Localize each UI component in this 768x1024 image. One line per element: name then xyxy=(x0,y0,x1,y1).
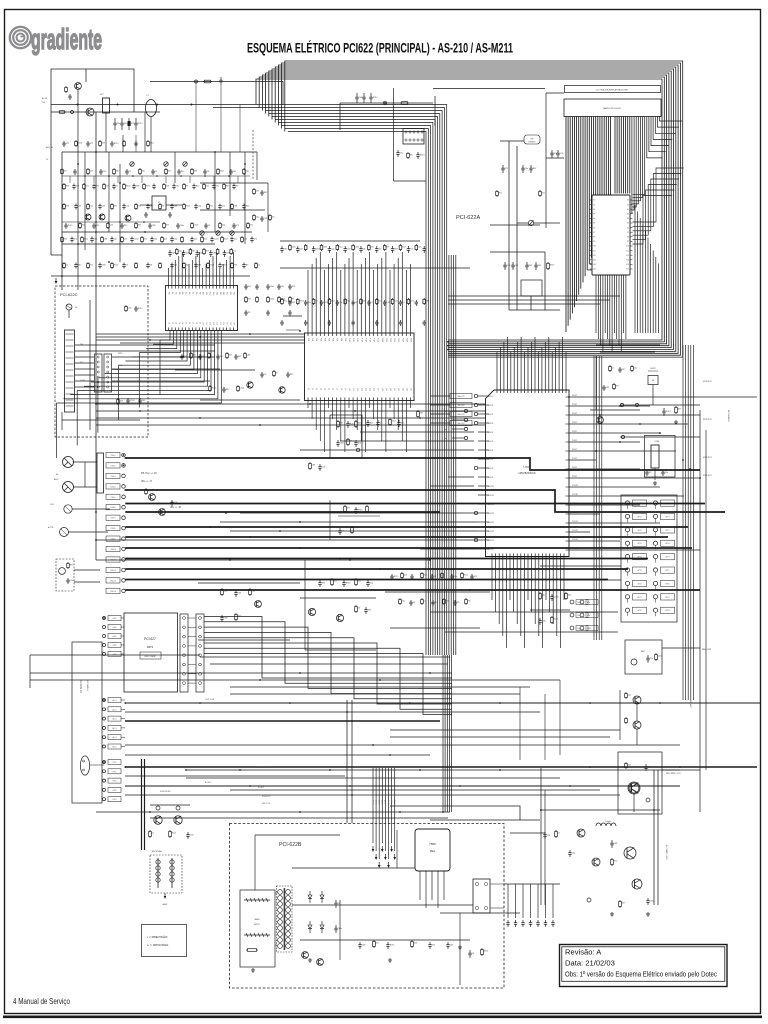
svg-text:G4: G4 xyxy=(593,218,595,220)
svg-text:AC IN: AC IN xyxy=(42,97,48,100)
svg-text:2K2: 2K2 xyxy=(284,249,287,251)
svg-text:KEY1: KEY1 xyxy=(665,516,669,518)
svg-text:AC-4: AC-4 xyxy=(384,800,387,804)
svg-text:P69/KS9: P69/KS9 xyxy=(487,477,493,479)
capacitors C401 C402 xyxy=(551,150,553,153)
right sub-cluster of top-left block xyxy=(200,183,275,232)
svg-text:P63/KS3: P63/KS3 xyxy=(487,423,493,425)
svg-text:CN6-7: CN6-7 xyxy=(111,518,116,520)
svg-text:Obs: 1º versão do Esquema Elét: Obs: 1º versão do Esquema Elétrico envia… xyxy=(565,970,717,979)
IR receiver xyxy=(625,640,712,674)
components under U301 row xyxy=(175,352,300,400)
svg-text:100n: 100n xyxy=(392,420,396,422)
RCA jack J3 xyxy=(64,505,72,513)
svg-text:C88: C88 xyxy=(102,265,105,267)
svg-text:O3: O3 xyxy=(178,322,180,324)
svg-text:100n: 100n xyxy=(270,286,274,288)
svg-text:Q11: Q11 xyxy=(352,388,354,391)
svg-text:MUTE: MUTE xyxy=(650,368,656,370)
svg-text:C88: C88 xyxy=(136,186,139,188)
svg-text:333: 333 xyxy=(395,249,398,251)
svg-text:CN6-8: CN6-8 xyxy=(111,528,116,530)
svg-text:C88: C88 xyxy=(387,302,390,304)
svg-text:4 Manual de Serviço: 4 Manual de Serviço xyxy=(13,996,70,1006)
svg-text:KEY4: KEY4 xyxy=(665,557,669,559)
svg-text:S0: S0 xyxy=(627,200,629,202)
svg-text:333: 333 xyxy=(606,387,609,389)
svg-text:22p: 22p xyxy=(224,590,227,592)
svg-text:472: 472 xyxy=(206,185,209,187)
svg-text:KEY6: KEY6 xyxy=(665,583,669,585)
svg-text:S5: S5 xyxy=(627,223,629,225)
svg-text:P67/KS7: P67/KS7 xyxy=(487,459,493,461)
svg-text:C1: C1 xyxy=(129,171,131,173)
svg-text:C56: C56 xyxy=(347,249,350,251)
svg-text:S2: S2 xyxy=(627,209,629,211)
svg-text:IN4: IN4 xyxy=(181,292,183,295)
svg-text:22p: 22p xyxy=(256,216,259,218)
svg-text:G11: G11 xyxy=(593,250,596,252)
svg-text:472: 472 xyxy=(371,246,374,248)
svg-text:C88: C88 xyxy=(234,205,237,207)
svg-text:22p: 22p xyxy=(370,583,373,585)
rectifier diodes xyxy=(308,891,342,933)
svg-text:IN16: IN16 xyxy=(222,292,224,295)
svg-text:KEY3: KEY3 xyxy=(665,543,669,545)
capacitor row C110 xyxy=(356,93,358,97)
svg-text:22p: 22p xyxy=(198,206,201,208)
svg-text:SW-LCD: SW-LCD xyxy=(457,414,465,416)
svg-text:R47: R47 xyxy=(358,422,361,424)
svg-text:MAIN: MAIN xyxy=(255,918,261,921)
svg-text:S15: S15 xyxy=(626,269,629,271)
svg-text:472: 472 xyxy=(250,224,253,226)
svg-text:tp: tp xyxy=(445,410,447,413)
keyboard matrix keys xyxy=(625,500,674,616)
svg-text:333: 333 xyxy=(76,186,79,188)
relay connector CN301 xyxy=(403,129,424,145)
svg-text:4K7: 4K7 xyxy=(220,356,223,358)
headphone jack xyxy=(80,756,89,775)
display right lower taper xyxy=(635,205,658,333)
svg-text:C56: C56 xyxy=(560,153,563,155)
svg-text:O0: O0 xyxy=(168,322,170,324)
svg-text:333: 333 xyxy=(234,264,237,266)
svg-text:472: 472 xyxy=(505,168,508,170)
connector bar CN5 xyxy=(97,453,104,493)
svg-text:R215: R215 xyxy=(323,302,328,304)
svg-text:472: 472 xyxy=(300,249,303,251)
crystal X101 xyxy=(103,98,110,113)
svg-text:R215: R215 xyxy=(390,945,395,947)
svg-text:S12: S12 xyxy=(626,255,629,257)
svg-text:CN6-5: CN6-5 xyxy=(111,497,116,499)
svg-text:Q25: Q25 xyxy=(410,388,412,391)
svg-text:O11: O11 xyxy=(205,322,207,325)
svg-text:47u: 47u xyxy=(468,600,471,602)
svg-text:Q14: Q14 xyxy=(364,388,366,391)
IC U201 xyxy=(305,333,415,401)
svg-text:CN6-10: CN6-10 xyxy=(110,549,116,551)
svg-text:C1: C1 xyxy=(558,832,560,834)
svg-text:R310: R310 xyxy=(316,249,321,251)
svg-text:22p: 22p xyxy=(281,286,284,288)
svg-text:47u: 47u xyxy=(376,942,379,944)
connector CN2 double row xyxy=(95,354,103,392)
svg-text:100n: 100n xyxy=(650,901,654,903)
svg-text:4K7: 4K7 xyxy=(622,902,625,904)
svg-text:C1: C1 xyxy=(434,576,436,578)
svg-text:O16: O16 xyxy=(222,322,224,325)
svg-text:R47: R47 xyxy=(238,356,241,358)
svg-text:47u: 47u xyxy=(435,602,438,604)
svg-text:R47: R47 xyxy=(340,422,343,424)
svg-text:gradiente: gradiente xyxy=(31,24,102,56)
svg-text:IN8: IN8 xyxy=(195,292,197,295)
keyboard matrix outline xyxy=(621,495,677,622)
svg-text:333: 333 xyxy=(420,412,423,414)
svg-text:47u: 47u xyxy=(234,239,237,241)
svg-text:C204: C204 xyxy=(587,628,591,630)
U301 top pin fan xyxy=(169,252,234,331)
svg-text:47u: 47u xyxy=(233,250,236,252)
display IC bottom fan xyxy=(596,275,660,352)
svg-text:C1: C1 xyxy=(371,302,373,304)
svg-text:FM: FM xyxy=(531,139,534,141)
tuner column wires xyxy=(490,141,560,310)
svg-text:G2: G2 xyxy=(593,209,595,211)
svg-text:PH-1: PH-1 xyxy=(113,771,117,773)
svg-text:10u: 10u xyxy=(525,168,528,170)
svg-text:100n: 100n xyxy=(292,246,296,248)
svg-text:P62/KS2: P62/KS2 xyxy=(487,414,493,416)
beep circuit xyxy=(300,560,376,650)
svg-text:M: M xyxy=(652,380,654,382)
parts on y81 wire xyxy=(195,77,223,85)
svg-text:O8: O8 xyxy=(195,322,197,324)
svg-text:G7: G7 xyxy=(593,232,595,234)
svg-text:R OUT: R OUT xyxy=(258,787,265,789)
KD-MINI CD box xyxy=(72,642,102,803)
resistor R101 xyxy=(58,111,60,113)
svg-text:AO-5: AO-5 xyxy=(113,746,117,749)
svg-text:333: 333 xyxy=(368,610,371,612)
svg-text:472: 472 xyxy=(90,264,93,266)
svg-text:IN5: IN5 xyxy=(185,292,187,295)
svg-text:KEY5: KEY5 xyxy=(665,570,669,572)
svg-text:C204: C204 xyxy=(118,365,123,367)
svg-text:O2: O2 xyxy=(174,322,176,324)
top-left extra density rows xyxy=(61,140,253,229)
svg-text:104: 104 xyxy=(186,253,189,255)
svg-text:CN6-2: CN6-2 xyxy=(111,465,116,467)
display section left boundary xyxy=(545,93,547,228)
svg-text:MTS RST: MTS RST xyxy=(703,419,713,421)
svg-text:G5: G5 xyxy=(593,223,595,225)
long bus wires lower xyxy=(30,560,560,818)
svg-text:REG: REG xyxy=(430,850,435,853)
svg-text:PH-0: PH-0 xyxy=(113,762,117,764)
driver Q604 xyxy=(577,829,585,837)
U701 left pins xyxy=(474,394,494,551)
middle right extra cluster xyxy=(330,500,380,540)
svg-text:P9/INT: P9/INT xyxy=(572,476,577,478)
svg-text:dBL +/- 48: dBL +/- 48 xyxy=(170,506,182,509)
svg-text:IN11: IN11 xyxy=(205,292,207,295)
svg-text:C1: C1 xyxy=(342,531,344,533)
svg-text:C56: C56 xyxy=(244,238,247,240)
svg-text:MC-VAD-S: MC-VAD-S xyxy=(86,680,89,691)
svg-text:O15: O15 xyxy=(219,322,221,325)
svg-text:REL TAPE +12V: REL TAPE +12V xyxy=(666,772,681,775)
svg-text:C204: C204 xyxy=(210,264,215,266)
svg-text:G9: G9 xyxy=(593,241,595,243)
svg-text:C88: C88 xyxy=(323,246,326,248)
svg-text:Data: 21/02/03: Data: 21/02/03 xyxy=(565,959,615,968)
svg-text:4K7: 4K7 xyxy=(426,300,429,302)
svg-text:Q0: Q0 xyxy=(307,388,309,390)
antenna input xyxy=(66,304,72,310)
svg-text:G13: G13 xyxy=(593,260,596,262)
svg-text:22p: 22p xyxy=(179,250,182,252)
svg-text:C56: C56 xyxy=(174,502,177,504)
svg-text:22p: 22p xyxy=(339,302,342,304)
svg-text:LCD /TDA-CRL/DISPLAY BACKLIGHT: LCD /TDA-CRL/DISPLAY BACKLIGHT xyxy=(596,88,629,91)
svg-text:R12: R12 xyxy=(181,171,184,173)
svg-text:P66/KS6: P66/KS6 xyxy=(487,450,493,452)
svg-text:22p: 22p xyxy=(331,249,334,251)
svg-text:KEY3: KEY3 xyxy=(637,543,641,545)
svg-text:C204: C204 xyxy=(214,239,219,241)
svg-text:Q7: Q7 xyxy=(336,388,338,390)
page bottom rule xyxy=(3,1015,762,1018)
wire node B+ xyxy=(340,102,433,104)
rail y276 xyxy=(51,275,250,277)
svg-text:P14/INT: P14/INT xyxy=(572,521,578,523)
U701 left long wires xyxy=(96,432,478,549)
svg-text:AO-2: AO-2 xyxy=(113,718,117,721)
svg-text:4K7: 4K7 xyxy=(138,224,141,226)
svg-text:472: 472 xyxy=(193,354,196,356)
transistor Q102 xyxy=(86,108,94,116)
wires from CN301 xyxy=(394,88,427,181)
extra lower-right horizontals xyxy=(230,680,620,760)
verticals between rails xyxy=(106,82,240,153)
svg-text:CN6-9: CN6-9 xyxy=(111,539,116,541)
svg-text:472: 472 xyxy=(229,354,232,356)
svg-text:C1: C1 xyxy=(66,264,68,266)
transistor row mid xyxy=(62,214,252,235)
svg-text:Q8: Q8 xyxy=(340,388,342,390)
microcontroller U701 xyxy=(486,390,570,557)
svg-text:Q22: Q22 xyxy=(397,388,399,391)
top-left component field rows xyxy=(61,183,260,269)
svg-text:C88: C88 xyxy=(247,354,250,356)
svg-text:S9: S9 xyxy=(627,241,629,243)
svg-text:100n: 100n xyxy=(146,185,150,187)
U701 edge pin ticks xyxy=(486,396,570,550)
svg-text:O4: O4 xyxy=(181,322,183,324)
rail nodes with pots xyxy=(130,162,187,166)
svg-text:AO-0: AO-0 xyxy=(113,699,117,702)
svg-text:104: 104 xyxy=(401,423,404,425)
svg-text:R215: R215 xyxy=(172,832,177,834)
tuner components lower xyxy=(503,262,554,310)
svg-text:Q21: Q21 xyxy=(393,388,395,391)
svg-text:R9: R9 xyxy=(186,185,188,187)
svg-text:100n: 100n xyxy=(150,142,154,144)
svg-text:Q18: Q18 xyxy=(381,388,383,391)
svg-text:22p: 22p xyxy=(116,170,119,172)
svg-text:IN17: IN17 xyxy=(226,292,228,295)
svg-text:KEY7: KEY7 xyxy=(665,597,669,599)
svg-text:P16/INT: P16/INT xyxy=(572,539,578,541)
power transistor Q601 xyxy=(628,782,640,794)
right mid components xyxy=(590,356,640,423)
svg-text:R9: R9 xyxy=(457,602,459,604)
svg-text:R310: R310 xyxy=(358,510,363,512)
svg-text:KEY8: KEY8 xyxy=(665,610,669,612)
antenna coils xyxy=(150,850,182,906)
svg-text:R12: R12 xyxy=(284,300,287,302)
svg-text:P64/KS14: P64/KS14 xyxy=(487,522,494,524)
gradiente logo emblem xyxy=(10,27,31,48)
svg-text:2K2: 2K2 xyxy=(256,190,259,192)
svg-text:47u: 47u xyxy=(587,602,590,604)
svg-text:uPD780306GK: uPD780306GK xyxy=(518,471,536,475)
svg-text:C204: C204 xyxy=(658,655,663,657)
svg-text:47u: 47u xyxy=(587,615,590,617)
svg-text:PH-4: PH-4 xyxy=(113,799,117,801)
svg-text:R47: R47 xyxy=(248,286,251,288)
PCI-622C dashed outline xyxy=(55,286,148,437)
mid cluster west xyxy=(198,583,300,640)
svg-text:IN0: IN0 xyxy=(168,292,170,295)
svg-text:P66/KS16: P66/KS16 xyxy=(487,540,494,542)
svg-text:O12: O12 xyxy=(209,322,211,325)
svg-text:C1: C1 xyxy=(116,186,118,188)
svg-text:104: 104 xyxy=(206,250,209,252)
svg-text:100n: 100n xyxy=(180,225,184,227)
svg-text:472: 472 xyxy=(292,286,295,288)
connector CN1 xyxy=(65,330,75,412)
electrolytic caps row xyxy=(113,118,142,130)
svg-text:PCI-627: PCI-627 xyxy=(144,637,156,641)
svg-text:104: 104 xyxy=(404,574,407,576)
svg-text:22p: 22p xyxy=(634,367,637,369)
svg-text:R12: R12 xyxy=(168,170,171,172)
svg-text:R310: R310 xyxy=(550,264,555,266)
svg-text:Q3: Q3 xyxy=(319,388,321,390)
svg-text:AC-2: AC-2 xyxy=(378,800,381,804)
display fan left xyxy=(566,117,611,333)
RCA jack J4 xyxy=(60,528,69,537)
svg-text:P61/KS11: P61/KS11 xyxy=(487,495,494,497)
svg-text:C204: C204 xyxy=(270,298,275,300)
svg-text:KEY8: KEY8 xyxy=(637,610,641,612)
svg-text:AC-6: AC-6 xyxy=(390,800,393,804)
svg-text:R47: R47 xyxy=(226,185,229,187)
svg-text:R215: R215 xyxy=(224,238,229,240)
power transistor Q603 xyxy=(632,879,642,889)
svg-text:Q10: Q10 xyxy=(348,388,350,391)
svg-text:Q24: Q24 xyxy=(405,388,407,391)
svg-text:2K2: 2K2 xyxy=(142,400,145,402)
svg-text:4K7: 4K7 xyxy=(120,400,123,402)
svg-text:R215: R215 xyxy=(554,618,559,620)
svg-text:4K7: 4K7 xyxy=(82,224,85,226)
oscillator Q103 xyxy=(146,100,157,117)
svg-text:10u: 10u xyxy=(194,239,197,241)
display IC right steps xyxy=(633,168,684,244)
svg-text:R12: R12 xyxy=(124,225,127,227)
svg-text:R215: R215 xyxy=(138,123,143,125)
svg-text:10u: 10u xyxy=(358,580,361,582)
svg-text:PCI-622B: PCI-622B xyxy=(279,842,302,848)
svg-text:Q5: Q5 xyxy=(328,388,330,390)
svg-text:C1: C1 xyxy=(152,832,154,834)
mute switch xyxy=(648,376,658,385)
U701 bottom component rows xyxy=(385,572,490,628)
svg-text:Q12: Q12 xyxy=(356,388,358,391)
svg-text:KEY MATRIX: KEY MATRIX xyxy=(727,410,730,423)
svg-text:REC: REC xyxy=(641,651,646,653)
svg-text:R12: R12 xyxy=(196,186,199,188)
display connector box xyxy=(564,99,661,117)
svg-text:AO-3: AO-3 xyxy=(113,727,117,730)
svg-text:2K2: 2K2 xyxy=(66,205,69,207)
svg-text:•• = OPCIONAL: •• = OPCIONAL xyxy=(147,943,169,947)
svg-text:Q13: Q13 xyxy=(360,388,362,391)
svg-text:R9: R9 xyxy=(649,472,651,474)
bus return horizontals upper xyxy=(448,296,620,304)
junction dots block xyxy=(95,151,97,153)
mute circuit parts xyxy=(620,403,700,424)
svg-text:IN13: IN13 xyxy=(212,292,214,295)
svg-text:Q17: Q17 xyxy=(377,388,379,391)
svg-text:R310: R310 xyxy=(484,950,489,952)
svg-text:472: 472 xyxy=(90,143,93,145)
svg-text:R215: R215 xyxy=(394,576,399,578)
svg-text:P61/KS1: P61/KS1 xyxy=(487,405,493,407)
svg-text:C204: C204 xyxy=(554,597,559,599)
svg-text:22p: 22p xyxy=(174,239,177,241)
svg-text:100n: 100n xyxy=(220,170,224,172)
svg-text:O7: O7 xyxy=(191,322,193,324)
svg-text:S/DIG-T5: S/DIG-T5 xyxy=(262,796,271,798)
mid cluster east xyxy=(530,592,572,625)
svg-text:Q23: Q23 xyxy=(401,388,403,391)
svg-text:PH-2: PH-2 xyxy=(113,781,117,783)
jack wires xyxy=(68,462,110,532)
svg-text:R12: R12 xyxy=(339,246,342,248)
svg-text:2K2: 2K2 xyxy=(138,205,141,207)
svg-text:IN18: IN18 xyxy=(229,292,231,295)
svg-text:P11/INT: P11/INT xyxy=(572,494,578,496)
right bus verticals 2 xyxy=(594,356,602,640)
svg-text:INPUT: INPUT xyxy=(254,924,261,926)
svg-text:CN6-14: CN6-14 xyxy=(110,591,116,593)
svg-text:472: 472 xyxy=(131,123,134,125)
svg-text:C88: C88 xyxy=(507,265,510,267)
wires from lower connectors xyxy=(125,699,760,795)
svg-text:P63/KS13: P63/KS13 xyxy=(487,513,494,515)
svg-text:R12: R12 xyxy=(614,860,617,862)
sum amp box xyxy=(152,196,166,210)
bottom-left transistor cluster xyxy=(142,759,194,850)
svg-text:IN7: IN7 xyxy=(191,292,193,295)
svg-text:CN6-1: CN6-1 xyxy=(111,455,116,457)
